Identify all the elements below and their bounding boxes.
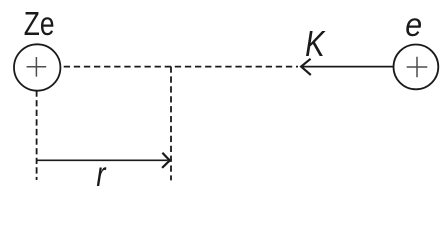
vertical dashed line below nucleus [36, 91, 38, 181]
nucleus circle Ze [14, 44, 60, 90]
vertical dashed line at closest approach [170, 67, 172, 181]
arrowhead pointing right [162, 153, 170, 168]
plus sign in electron [407, 57, 428, 78]
svg-text:K: K [305, 23, 326, 64]
svg-text:r: r [96, 155, 106, 190]
arrow shaft K [303, 66, 394, 68]
arrow shaft r [37, 159, 168, 161]
dashed line from nucleus to arrow tip [64, 66, 298, 68]
plus sign in nucleus [27, 57, 47, 77]
svg-text:e: e [405, 6, 422, 43]
electron circle e [394, 45, 439, 90]
arrowhead pointing left [301, 59, 311, 75]
svg-text:Ze: Ze [24, 6, 55, 42]
